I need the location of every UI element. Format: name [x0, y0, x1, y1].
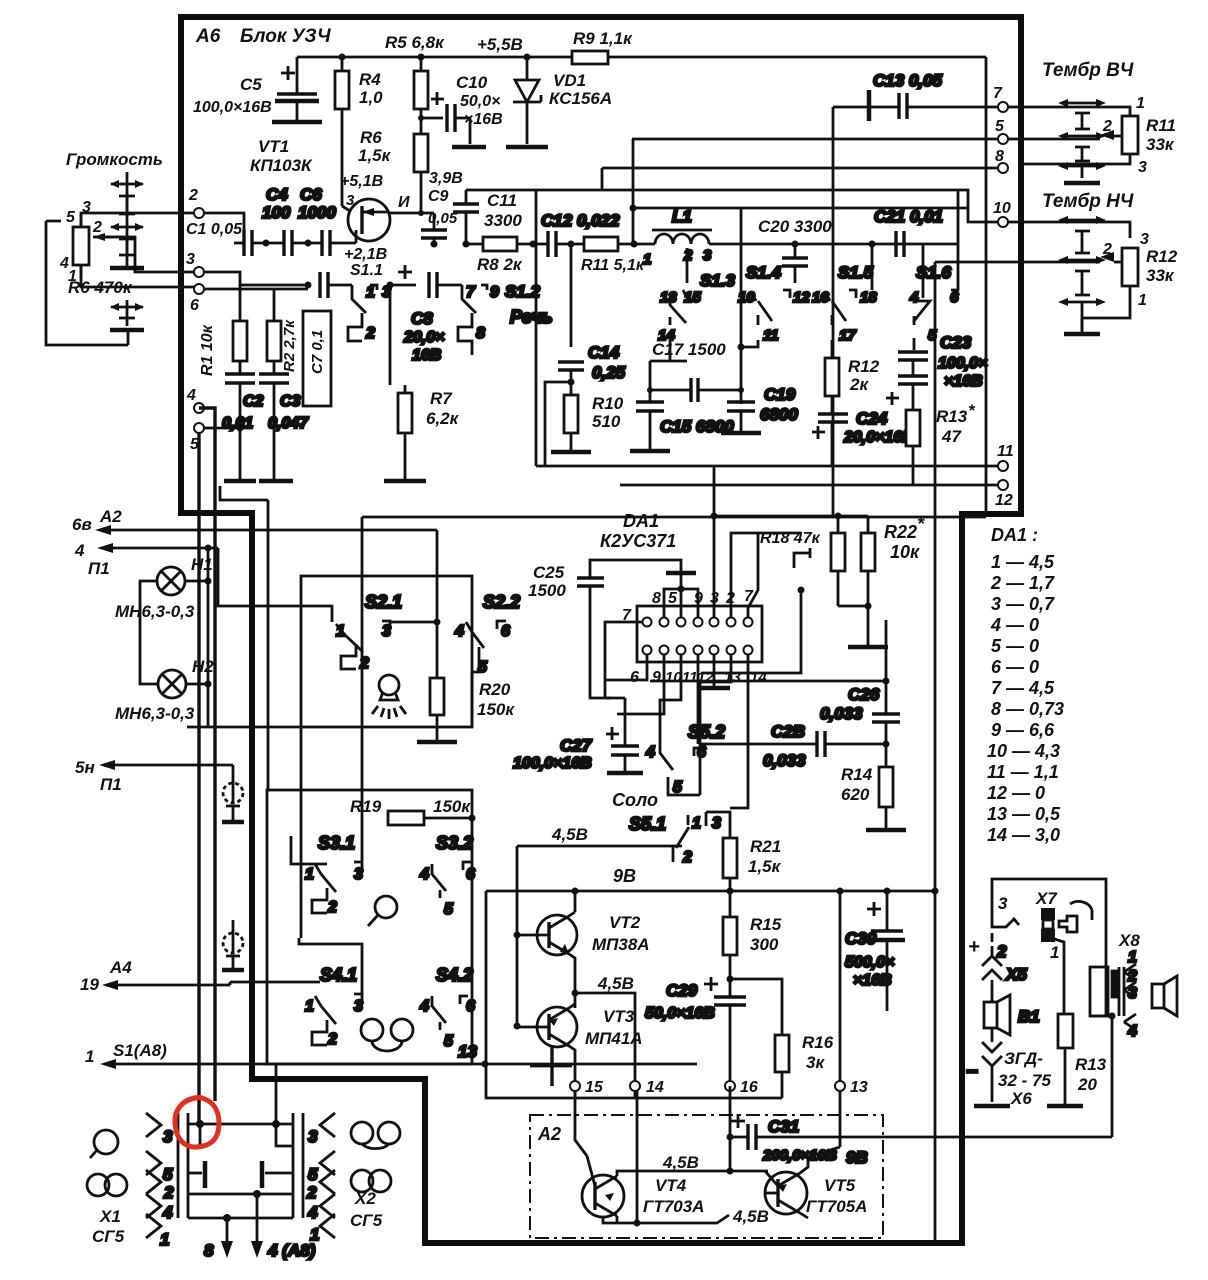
wire t13 up: [839, 891, 842, 1081]
svg-text:11: 11: [763, 327, 779, 344]
svg-text:И: И: [398, 194, 410, 211]
capacitor conn left: [188, 1161, 205, 1188]
svg-text:4,5В: 4,5В: [597, 974, 634, 993]
switch S3.2: [419, 833, 475, 918]
capacitor conn right: [262, 1161, 293, 1188]
svg-text:20: 20: [1077, 1075, 1097, 1094]
svg-text:R11: R11: [1146, 116, 1176, 135]
IC DA1: [622, 588, 767, 686]
resistor R14: [841, 744, 906, 830]
svg-text:2: 2: [1102, 241, 1112, 258]
svg-text:50,0×: 50,0×: [460, 93, 500, 110]
capacitor row2: [320, 272, 352, 298]
wire arrow 5n: [99, 760, 233, 770]
wire C12 node down: [570, 244, 573, 347]
svg-text:14: 14: [646, 1079, 664, 1096]
wire +5.5V rail: [297, 56, 986, 59]
terminal 8: [998, 163, 1008, 173]
svg-text:4: 4: [645, 744, 655, 761]
svg-text:6: 6: [466, 866, 475, 883]
capacitor C15: [630, 402, 734, 451]
wire bus x299: [300, 727, 303, 938]
svg-text:1,5к: 1,5к: [748, 857, 782, 876]
svg-text:ЗГД-: ЗГД-: [1004, 1049, 1043, 1068]
svg-text:1: 1: [643, 251, 651, 268]
svg-text:4: 4: [419, 866, 429, 883]
svg-text:7 — 4,5: 7 — 4,5: [991, 678, 1055, 698]
svg-text:9В: 9В: [613, 866, 636, 886]
svg-text:3: 3: [308, 1127, 318, 1146]
svg-text:2: 2: [327, 1031, 337, 1048]
wire R9 corner: [985, 57, 988, 517]
svg-text:СГ5: СГ5: [350, 1211, 383, 1230]
terminal 6: [194, 284, 204, 294]
svg-text:12: 12: [995, 492, 1013, 509]
svg-text:Тембр НЧ: Тембр НЧ: [1042, 191, 1134, 212]
svg-text:19: 19: [80, 975, 99, 994]
wire 4,5V S5 link: [517, 846, 673, 1026]
terminal 16: [725, 1081, 735, 1091]
svg-text:С31: С31: [768, 1117, 799, 1136]
svg-text:Х5: Х5: [1005, 965, 1027, 984]
svg-text:R10: R10: [592, 394, 624, 413]
svg-text:×16В: ×16В: [853, 972, 892, 989]
svg-text:13: 13: [850, 1079, 868, 1096]
svg-text:L1: L1: [672, 207, 692, 226]
svg-text:33к: 33к: [1146, 266, 1175, 285]
resistor R18: [794, 513, 845, 607]
svg-text:*: *: [917, 514, 925, 534]
shield terminal 2: [222, 920, 244, 970]
svg-text:R19: R19: [350, 797, 382, 816]
resistor R4: [335, 57, 383, 214]
wire pin7 left: [605, 622, 642, 698]
resistor R13eq: [906, 401, 976, 485]
svg-text:0,047: 0,047: [268, 415, 309, 432]
svg-text:VT2: VT2: [609, 913, 641, 932]
speaker B1: [984, 995, 1040, 1035]
phone icon X1: [87, 1174, 127, 1196]
terminal 12: [998, 480, 1008, 490]
svg-text:100: 100: [262, 203, 291, 222]
svg-text:1,0: 1,0: [359, 88, 383, 107]
svg-text:8 — 0,73: 8 — 0,73: [991, 699, 1064, 719]
ground B1: [974, 1104, 1010, 1109]
terminal 2: [194, 208, 204, 218]
svg-text:13: 13: [724, 669, 741, 686]
svg-text:2: 2: [359, 655, 369, 672]
svg-text:0,033: 0,033: [820, 704, 863, 723]
terminal 5b: [194, 423, 204, 433]
svg-text:6,2к: 6,2к: [426, 409, 460, 428]
tape icon: [361, 1019, 413, 1051]
wire lamp H2 out: [186, 683, 208, 686]
svg-text:S2.2: S2.2: [483, 592, 520, 612]
magnifier icon: [368, 896, 397, 926]
svg-text:6800: 6800: [760, 405, 798, 424]
wire speaker box top: [992, 879, 1106, 1015]
svg-text:А4: А4: [109, 958, 132, 977]
svg-text:1: 1: [366, 284, 375, 301]
wire 9V rail: [486, 890, 935, 893]
svg-text:2: 2: [306, 1183, 317, 1202]
wire long mid vertical: [934, 262, 937, 1243]
svg-text:15: 15: [585, 1079, 604, 1096]
wire pin13 r21: [700, 654, 731, 795]
svg-text:С11: С11: [487, 191, 517, 210]
svg-text:300: 300: [750, 935, 779, 954]
power bar pin5: [664, 573, 698, 618]
svg-text:А2: А2: [99, 507, 122, 526]
svg-text:КС156А: КС156А: [549, 89, 612, 108]
terminal 13: [835, 1081, 845, 1091]
svg-text:4,5В: 4,5В: [551, 825, 588, 844]
svg-text:4: 4: [1127, 1023, 1137, 1040]
svg-text:3: 3: [346, 192, 355, 209]
svg-text:S3.1: S3.1: [318, 833, 355, 853]
svg-text:5: 5: [308, 1165, 318, 1184]
svg-text:R12: R12: [848, 357, 880, 376]
resistor R8: [431, 237, 549, 274]
jack X7 plug: [1041, 908, 1064, 1014]
svg-text:3: 3: [712, 815, 721, 832]
wire c17 row: [650, 361, 687, 402]
svg-text:С4: С4: [266, 185, 288, 204]
svg-text:S4.2: S4.2: [436, 965, 473, 985]
svg-text:2: 2: [682, 849, 692, 866]
svg-text:С13 0,05: С13 0,05: [873, 71, 943, 90]
connector X2 pins: [306, 1113, 335, 1244]
wire amp box left: [486, 891, 782, 1098]
switch S3.1: [291, 833, 363, 916]
svg-text:10 — 4,3: 10 — 4,3: [987, 741, 1060, 761]
wire bus t4 down: [199, 408, 215, 1101]
svg-text:510: 510: [592, 412, 621, 431]
wire pin3 up: [713, 516, 716, 618]
wire t10 to R12: [1008, 222, 1130, 238]
speaker icon right: [1152, 976, 1177, 1016]
svg-text:150к: 150к: [477, 700, 515, 719]
svg-text:6: 6: [630, 669, 639, 686]
terminal 10: [998, 217, 1008, 227]
wire da1 feed: [362, 517, 986, 862]
resistor R7: [384, 385, 460, 481]
wire da1 top drop: [713, 466, 716, 516]
wire terminal8 line: [602, 168, 1003, 190]
svg-text:VD1: VD1: [553, 71, 586, 90]
svg-text:3: 3: [354, 866, 363, 883]
wire VT1 drain down: [389, 285, 392, 385]
switch S1.1: [348, 284, 391, 342]
chassis T mark: [530, 1046, 572, 1086]
capacitor C26: [820, 620, 900, 743]
capacitor C25: [577, 560, 681, 698]
svg-text:9В: 9В: [846, 1148, 868, 1167]
svg-text:П1: П1: [88, 559, 110, 578]
inductor L1: [643, 207, 712, 268]
svg-text:3,9В: 3,9В: [429, 170, 463, 187]
red annotation circle: [175, 1098, 219, 1148]
svg-text:3: 3: [163, 1127, 173, 1146]
node junction R5: [418, 54, 425, 61]
svg-text:13: 13: [458, 1042, 477, 1061]
svg-text:В1: В1: [1018, 1007, 1040, 1026]
svg-text:Х1: Х1: [99, 1207, 121, 1226]
svg-text:150к: 150к: [433, 797, 471, 816]
wire eq out up: [957, 190, 960, 244]
arrow 8: [204, 1218, 233, 1260]
svg-text:5: 5: [66, 209, 76, 226]
svg-text:Х7: Х7: [1035, 889, 1058, 908]
svg-text:S2.1: S2.1: [365, 592, 402, 612]
svg-text:1: 1: [1136, 95, 1145, 112]
svg-text:14 — 3,0: 14 — 3,0: [987, 825, 1060, 845]
capacitor C28: [700, 722, 890, 770]
capacitor C11: [453, 190, 522, 244]
wire arrow 6v: [95, 525, 437, 535]
block A6 border frame: [181, 17, 1021, 1243]
svg-text:0,25: 0,25: [592, 363, 626, 382]
connector X1 pins: [146, 1113, 174, 1249]
svg-text:2: 2: [92, 219, 102, 236]
svg-text:16В: 16В: [412, 347, 441, 364]
switch S1.4: [738, 263, 810, 347]
zener VD1: [506, 57, 612, 147]
wire eq box left: [535, 190, 538, 466]
svg-text:С2: С2: [243, 393, 264, 410]
svg-text:С23: С23: [940, 333, 972, 352]
wire S2 bottom ext: [187, 726, 301, 729]
svg-text:9: 9: [490, 284, 499, 301]
svg-text:9: 9: [652, 669, 661, 686]
capacitor C27: [513, 698, 643, 773]
switch S2.1: [336, 592, 441, 672]
svg-text:1500: 1500: [528, 581, 566, 600]
svg-text:3: 3: [1138, 159, 1147, 176]
svg-text:Соло: Соло: [612, 790, 658, 810]
svg-text:9 — 6,6: 9 — 6,6: [991, 720, 1055, 740]
capacitor C29: [645, 976, 782, 1082]
svg-text:R4: R4: [359, 70, 381, 89]
capacitor C6: [298, 185, 356, 256]
svg-text:8: 8: [204, 1241, 214, 1260]
svg-text:S5.1: S5.1: [629, 814, 666, 834]
svg-text:2: 2: [1102, 118, 1112, 135]
svg-text:С26: С26: [848, 685, 880, 704]
svg-text:620: 620: [841, 785, 870, 804]
svg-text:3 — 0,7: 3 — 0,7: [991, 594, 1055, 614]
wire C13 branch: [833, 107, 869, 516]
svg-text:5: 5: [163, 1165, 173, 1184]
svg-text:R15: R15: [750, 915, 782, 934]
wire eq box bottom t11: [536, 465, 998, 468]
resistor R1 10k: [199, 285, 247, 376]
wire input row: [204, 213, 244, 243]
svg-text:МН6,3-0,3: МН6,3-0,3: [115, 602, 195, 621]
svg-text:С24: С24: [856, 409, 888, 428]
svg-text:А2: А2: [537, 1124, 561, 1144]
terminal 5r: [998, 134, 1008, 144]
capacitor C31: [727, 1086, 1113, 1167]
svg-text:R11 5,1к: R11 5,1к: [581, 257, 645, 274]
svg-text:1 — 4,5: 1 — 4,5: [991, 552, 1055, 572]
svg-text:1: 1: [692, 815, 701, 832]
svg-text:5 — 0: 5 — 0: [991, 636, 1039, 656]
plug icon small: [1059, 901, 1092, 932]
gang link bass column: [1058, 216, 1106, 334]
svg-text:VT5: VT5: [824, 1176, 856, 1195]
svg-text:С10: С10: [456, 73, 488, 92]
svg-text:32 - 75: 32 - 75: [998, 1071, 1051, 1090]
svg-text:VT4: VT4: [655, 1176, 687, 1195]
svg-text:DA1 :: DA1 :: [991, 525, 1038, 545]
svg-text:200,0×10В: 200,0×10В: [762, 1147, 837, 1164]
transistor VT4: [582, 1153, 704, 1223]
capacitor C4: [262, 185, 322, 256]
svg-text:6: 6: [501, 623, 510, 640]
svg-text:С14: С14: [588, 343, 620, 362]
svg-text:S5.2: S5.2: [688, 722, 725, 742]
connector X8 body: [1090, 967, 1124, 1016]
switch S5.1: [629, 812, 721, 866]
svg-text:4: 4: [74, 541, 85, 560]
wire pin9: [617, 654, 664, 714]
svg-text:0,01: 0,01: [222, 415, 253, 432]
transistor VT3: [517, 1004, 643, 1098]
svg-text:12 — 0: 12 — 0: [987, 783, 1045, 803]
svg-text:1: 1: [1128, 949, 1137, 966]
svg-text:1,5к: 1,5к: [358, 146, 392, 165]
svg-text:100,0×: 100,0×: [938, 355, 987, 372]
svg-text:S1.5: S1.5: [838, 263, 874, 282]
wire feedback top: [466, 190, 998, 222]
svg-text:7: 7: [993, 85, 1003, 102]
wire S2 drop: [436, 530, 439, 622]
svg-text:R13: R13: [936, 407, 968, 426]
svg-text:1: 1: [305, 998, 314, 1015]
jack X7 contact: [992, 917, 1019, 961]
box C7: [303, 311, 331, 406]
svg-text:5: 5: [444, 901, 454, 918]
svg-text:18: 18: [860, 289, 877, 306]
wire eq mid: [709, 243, 958, 246]
svg-text:С17 1500: С17 1500: [652, 340, 726, 359]
switch S1.5: [812, 244, 877, 358]
svg-text:500,0×: 500,0×: [845, 954, 894, 971]
svg-text:4 — 0: 4 — 0: [990, 615, 1039, 635]
svg-text:10к: 10к: [890, 542, 920, 562]
svg-text:6: 6: [190, 297, 199, 314]
svg-text:Н1: Н1: [191, 555, 213, 574]
wire pot loops: [46, 213, 194, 345]
svg-text:МН6,3-0,3: МН6,3-0,3: [115, 704, 195, 723]
svg-text:+5,1В: +5,1В: [340, 173, 383, 190]
svg-text:4,5В: 4,5В: [662, 1153, 699, 1172]
svg-text:Блок УЗЧ: Блок УЗЧ: [240, 26, 331, 47]
gang link treble column: [1058, 99, 1106, 183]
shield terminal 1: [222, 765, 244, 822]
svg-text:33к: 33к: [1146, 135, 1175, 154]
svg-text:3: 3: [1128, 985, 1137, 1002]
switch S2.2: [454, 592, 520, 727]
resistor R5 body: [414, 57, 428, 134]
svg-text:5: 5: [668, 590, 678, 607]
tape icon X2: [351, 1122, 400, 1149]
terminal 7: [998, 102, 1008, 112]
phone icon X2: [351, 1170, 391, 1192]
resistor R11 5,1k: [581, 237, 655, 274]
svg-text:R14: R14: [841, 765, 873, 784]
wire pin6: [605, 654, 647, 680]
wire pin11: [697, 654, 700, 744]
svg-text:16: 16: [740, 1079, 758, 1096]
svg-text:С19: С19: [764, 385, 796, 404]
svg-text:×16В: ×16В: [944, 373, 983, 390]
box A2 dashdot: [530, 1115, 883, 1238]
capacitor C30: [845, 891, 905, 1011]
transistor VT2: [517, 891, 650, 993]
resistor R16: [775, 1033, 834, 1098]
terminal 11: [998, 461, 1008, 471]
node junction VD1: [524, 54, 531, 61]
svg-text:14: 14: [750, 669, 767, 686]
svg-text:S3.2: S3.2: [436, 833, 473, 853]
svg-text:Громкость: Громкость: [66, 150, 163, 169]
capacitor C10: [418, 73, 503, 147]
transistor VT5: [732, 1091, 867, 1226]
svg-text:3: 3: [186, 251, 195, 268]
capacitor C2: [222, 374, 264, 481]
resistor R21: [706, 812, 782, 891]
switch S1.3: [658, 248, 736, 361]
wire bus x277: [220, 486, 268, 790]
svg-text:R9 1,1к: R9 1,1к: [573, 29, 633, 48]
capacitor C1: [204, 230, 284, 256]
svg-text:2к: 2к: [849, 375, 869, 394]
wire conn row4: [188, 1190, 293, 1198]
svg-text:R20: R20: [479, 680, 511, 699]
capacitor C5: [193, 57, 322, 122]
resistor R19: [350, 797, 476, 825]
svg-text:4: 4: [454, 623, 464, 640]
capacitor C21: [874, 207, 943, 257]
svg-text:6 — 0: 6 — 0: [991, 657, 1039, 677]
svg-text:+2,1В: +2,1В: [344, 246, 387, 263]
svg-text:8: 8: [995, 148, 1004, 165]
wire y208 to t10: [633, 207, 968, 210]
connector X1 body lines: [178, 1113, 188, 1218]
switch S4.2: [419, 965, 475, 1050]
wire node 4,5: [625, 1137, 768, 1175]
svg-text:VT1: VT1: [258, 137, 289, 156]
lamp H1: [115, 555, 213, 621]
svg-text:С3: С3: [280, 393, 301, 410]
svg-text:С27: С27: [560, 736, 593, 755]
svg-text:R8 2к: R8 2к: [477, 255, 523, 274]
svg-text:МП41А: МП41А: [585, 1029, 643, 1048]
wire arrow S1A8: [100, 1042, 697, 1069]
wire pin10 soло: [660, 654, 681, 743]
svg-text:R7: R7: [430, 389, 453, 408]
svg-text:17: 17: [839, 327, 856, 344]
capacitor C13: [869, 71, 998, 121]
svg-text:S1(А8): S1(А8): [113, 1041, 167, 1060]
svg-text:6: 6: [697, 744, 706, 761]
capacitor C9: [421, 188, 458, 244]
svg-text:5: 5: [673, 779, 683, 796]
resistor R20: [417, 622, 515, 742]
svg-text:20,0×16В: 20,0×16В: [843, 429, 914, 446]
